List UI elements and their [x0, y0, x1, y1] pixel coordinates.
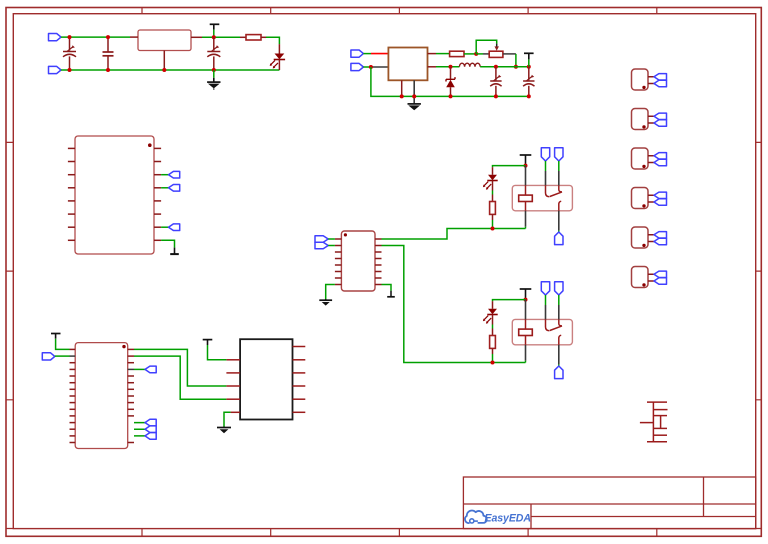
- wire red net VIN: [371, 53, 388, 55]
- IC U3 body: [75, 136, 154, 254]
- connector J3: [632, 148, 667, 169]
- wire U4 pin2 to relay2: [382, 246, 526, 363]
- K2 contact: [546, 319, 550, 330]
- U2 pin FB: [428, 53, 437, 55]
- U4 left pins: [335, 239, 342, 285]
- regulator U1: [138, 30, 191, 51]
- ground GND4: [217, 427, 231, 434]
- wire U5 pin4 to flag: [134, 368, 145, 370]
- relay K1 box: [512, 185, 572, 210]
- ground GND5: [319, 299, 332, 306]
- wire U3 pin3: [161, 174, 168, 176]
- capacitor C2: [103, 37, 114, 70]
- wire flag to blade: [558, 161, 560, 171]
- net flag U3 pin4: [169, 185, 180, 192]
- U5 pin1 mark: [122, 345, 125, 348]
- wire A U5 pin1 to U6: [134, 349, 226, 386]
- K2 blade: [550, 319, 562, 330]
- U4 pin1 mark: [344, 233, 347, 236]
- wire black to U2: [371, 66, 389, 68]
- K1 coil pin bottom: [525, 202, 527, 211]
- inductor L1: [459, 63, 480, 67]
- junction node VOUT: [212, 35, 216, 39]
- ground GND2: [408, 103, 421, 105]
- junction C2 top: [106, 35, 110, 39]
- junction diode node: [449, 65, 453, 69]
- net flag U4 pin2 (left): [315, 242, 328, 249]
- wire VCC to U5 pin1: [56, 339, 70, 350]
- net flag K2 pole: [555, 366, 563, 379]
- wire R4 to net: [492, 348, 494, 354]
- junction R3 bottom: [491, 227, 495, 231]
- buck IC U2: [388, 48, 427, 81]
- K2 coil pin top: [525, 300, 527, 320]
- K1 blade: [550, 185, 562, 196]
- wire LED to R4: [492, 315, 494, 325]
- U2 pin SW: [428, 66, 437, 68]
- J7 pin line top: [647, 401, 667, 403]
- wire U3 pin4: [161, 187, 168, 189]
- J7 pin line 3: [654, 415, 667, 417]
- wire P4 stub: [363, 66, 371, 68]
- net flag K2 contact NO: [541, 282, 549, 295]
- junction P4 node: [369, 65, 373, 69]
- J7 pin line 2: [653, 409, 667, 411]
- wire GND bottom: [61, 69, 279, 71]
- K1 contact: [546, 185, 550, 196]
- wire U3 pin8 to ground: [161, 240, 174, 247]
- wire U4 right pin8 to ground: [382, 285, 392, 291]
- capacitor C5 (polarized): [523, 67, 534, 97]
- relay K2 box: [512, 319, 572, 344]
- J7 pin line 5: [654, 434, 667, 436]
- J7 pin line left: [640, 422, 654, 424]
- U5 left pins: [70, 349, 76, 442]
- VCC symbol top: [210, 24, 220, 29]
- wire vcc to node: [213, 30, 215, 38]
- connector J1: [632, 69, 667, 90]
- U4 right pins: [375, 239, 382, 285]
- svg-text:EasyEDA: EasyEDA: [485, 512, 531, 524]
- U6 right pins: [293, 347, 306, 413]
- wiper arrow: [496, 44, 498, 47]
- IC U5 body: [75, 343, 128, 449]
- U5 right pins: [128, 349, 134, 442]
- junction FB node: [474, 52, 478, 56]
- net flag K1 pole: [555, 232, 563, 245]
- IC U6 body: [240, 339, 292, 419]
- U1 pin OUT: [191, 36, 202, 38]
- LED D4: [483, 309, 498, 324]
- ground GND1: [207, 78, 220, 90]
- junction C1 bottom: [68, 68, 72, 72]
- connector pin P2: [49, 66, 62, 73]
- wire VOUT: [202, 36, 240, 38]
- title block: [463, 477, 755, 529]
- EasyEDA logo: [465, 510, 531, 524]
- wire flag1 to pin1: [328, 238, 335, 240]
- connector J4: [632, 188, 667, 209]
- wire U3 pin7: [161, 226, 168, 228]
- wire VCC to U6 pin1: [208, 345, 227, 360]
- schottky diode D1: [446, 67, 455, 97]
- K2 coil: [519, 329, 533, 335]
- junction U1 gnd: [162, 68, 166, 72]
- junction C3 bottom: [212, 68, 216, 72]
- wire LED to R3: [492, 181, 494, 191]
- connector J5: [632, 227, 667, 248]
- ground bar GND3: [170, 248, 179, 255]
- junction C1 top: [68, 35, 72, 39]
- connector pin P5: [42, 353, 55, 360]
- U5 pin4 black stub: [128, 368, 134, 370]
- wire feedback loop: [476, 40, 497, 54]
- LED D2: [270, 54, 285, 71]
- LED D3: [483, 175, 498, 190]
- capacitor C4 (polarized): [490, 67, 501, 97]
- VCC symbol U5: [51, 334, 61, 339]
- net flag U4 pin1 (left): [315, 236, 328, 243]
- junction R4 bottom: [491, 361, 495, 365]
- wire flag to blade: [558, 295, 560, 305]
- resistor R2: [450, 51, 464, 56]
- wire flag to contact: [545, 295, 547, 305]
- ground bar GND6: [387, 291, 395, 297]
- VCC symbol relay1: [520, 155, 532, 166]
- connector pin P4: [351, 63, 364, 70]
- net flag U3 pin3: [169, 171, 180, 178]
- U2 pin gnd1: [401, 80, 403, 96]
- VCC symbol relay2: [520, 289, 532, 300]
- connector J2: [632, 109, 667, 130]
- net flag U5 pin4: [145, 366, 156, 373]
- wire vcc node to LED2: [493, 300, 526, 302]
- net flag U3 pin7: [169, 224, 180, 231]
- wire U6 pin5 to ground: [224, 412, 231, 426]
- U2 pin gnd2 (black): [413, 80, 415, 103]
- wires U5 pins 12-14 to flags: [134, 423, 145, 436]
- junction relay1 vcc node: [524, 164, 528, 168]
- K2 pole pin: [559, 335, 561, 345]
- U1 pin IN: [130, 36, 138, 38]
- connector pin P3: [351, 50, 364, 57]
- wire L1 out: [480, 66, 529, 68]
- net flag K1 blade: [555, 148, 563, 161]
- capacitor C1 (polarized): [63, 37, 76, 70]
- U6 left pins: [226, 360, 240, 413]
- wire trimmer down: [515, 54, 517, 67]
- IC U4 body: [341, 231, 375, 291]
- net flag U5 pin13: [145, 426, 156, 433]
- wire to ground: [213, 70, 215, 78]
- K2 coil pin bottom: [525, 336, 527, 345]
- junction relay2 vcc node: [524, 298, 528, 302]
- wire U4 pin1 to relay1: [382, 229, 526, 240]
- trimmer RV1: [476, 53, 483, 55]
- wire vcc node to LED1: [493, 166, 526, 168]
- wire P5 to U5 pin2: [55, 355, 70, 357]
- K1 coil: [519, 195, 533, 201]
- resistor R1: [240, 36, 246, 38]
- J7 spine: [652, 402, 654, 442]
- VCC symbol U6: [203, 340, 213, 345]
- wire gnd left vertical: [371, 67, 529, 96]
- K1 pole pin: [559, 201, 561, 211]
- net flag K2 blade: [555, 282, 563, 295]
- wire R1 to LED: [266, 37, 279, 44]
- wire U4 left pin8 to ground: [326, 285, 335, 300]
- wire P3 stub: [363, 53, 371, 55]
- wire B U5 pin2 to U6: [134, 356, 226, 399]
- U3 left pins: [68, 148, 75, 240]
- U3 right pins: [154, 148, 161, 240]
- connector J6: [632, 267, 667, 288]
- net flag K1 contact NO: [541, 148, 549, 161]
- J7 pin line bottom: [647, 441, 667, 443]
- wire flag2 to pin2: [328, 245, 335, 247]
- wire flag to contact: [545, 161, 547, 171]
- J7 pin line 4: [654, 427, 667, 429]
- U3 pin1 mark: [148, 143, 152, 147]
- VCC symbol buck out: [524, 53, 534, 59]
- K1 coil pin top: [525, 166, 527, 186]
- U1 pin GND: [163, 51, 165, 71]
- wire R3 to net: [492, 214, 494, 220]
- resistor R4: [490, 336, 496, 349]
- capacitor C3 (polarized): [207, 37, 220, 70]
- wire VIN top: [61, 36, 130, 38]
- junction C2 bottom: [106, 68, 110, 72]
- resistor R3: [490, 202, 496, 215]
- net flag U5 pin12: [145, 419, 156, 426]
- net flag U5 pin14: [145, 433, 156, 440]
- J7 inner vertical: [660, 416, 662, 429]
- connector pin P1: [49, 34, 62, 41]
